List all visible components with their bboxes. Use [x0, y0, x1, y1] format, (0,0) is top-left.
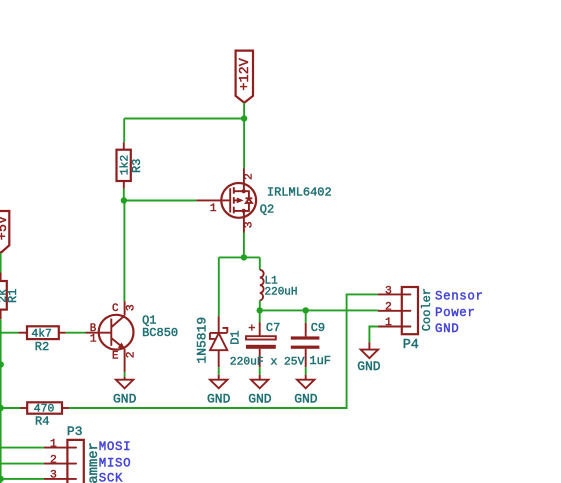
body circle of Q1	[99, 315, 134, 350]
body of R2	[27, 326, 59, 339]
body of R1	[0, 281, 7, 310]
svg-text:R4: R4	[35, 414, 49, 428]
gnd stub	[305, 375, 307, 380]
body circle of Q2	[221, 183, 256, 218]
gnd stub	[218, 375, 220, 380]
svg-text:P3: P3	[67, 424, 83, 439]
body of P3	[67, 440, 83, 483]
wire Q2 pin3 to junction	[243, 233, 245, 258]
body of R3	[117, 150, 131, 181]
negative pin of C7	[259, 349, 261, 367]
wire to D1	[218, 257, 220, 316]
wire R2 to Q1 base	[66, 332, 86, 334]
wire R3 to junction	[123, 189, 125, 201]
svg-text:1: 1	[90, 333, 97, 345]
wire left rail	[0, 319, 2, 483]
resistor R3	[117, 142, 145, 189]
svg-text:MOSI: MOSI	[99, 440, 131, 454]
pin 2 of R2	[59, 332, 66, 334]
svg-text:2: 2	[243, 173, 255, 180]
wire C9 to gnd	[305, 367, 307, 375]
anode triangle of D1	[210, 333, 227, 350]
gnd triangle	[251, 380, 268, 389]
wire Q1 emitter to gnd	[124, 372, 126, 377]
internal drain lead of Q2	[243, 183, 245, 191]
svg-text:C7: C7	[266, 321, 280, 335]
source contact of Q2	[234, 210, 244, 212]
pin 1 of R3	[123, 142, 125, 149]
power flag +12V	[236, 51, 253, 103]
node junction rail SCK	[0, 476, 4, 482]
svg-text:Q2: Q2	[260, 203, 274, 217]
svg-text:C: C	[112, 303, 119, 315]
base pin of Q1	[86, 332, 112, 334]
plate 2 of C9	[291, 346, 320, 349]
transistor Q2 IRLML6402	[221, 183, 256, 218]
svg-text:2: 2	[50, 455, 57, 467]
resistor R2	[18, 326, 65, 354]
svg-text:1uF: 1uF	[309, 354, 331, 368]
svg-text:Cooler: Cooler	[420, 288, 434, 331]
svg-text:SCK: SCK	[99, 471, 123, 483]
wire junction to Q2 gate	[124, 200, 196, 202]
resistor R1	[0, 273, 20, 320]
svg-text:GND: GND	[113, 391, 137, 406]
wire junction to C9	[305, 310, 307, 322]
wire junction to C7	[259, 310, 261, 322]
svg-text:R1: R1	[6, 289, 20, 303]
power flag +5V	[0, 211, 11, 253]
wire Q1 collector vertical	[123, 201, 125, 302]
pin contacts of P3	[68, 447, 76, 449]
gnd stub	[259, 375, 261, 380]
positive plate of C7	[246, 336, 276, 339]
wire SCK	[1, 478, 44, 480]
resistor R4	[20, 402, 69, 428]
coil of L1	[260, 270, 264, 301]
gnd stub	[124, 377, 126, 380]
pin 1 of C9	[305, 323, 307, 337]
node junction C9	[303, 307, 309, 313]
svg-text:2: 2	[126, 351, 138, 358]
svg-text:R3: R3	[130, 159, 144, 173]
svg-text:3: 3	[50, 469, 57, 481]
svg-text:MISO: MISO	[99, 457, 131, 471]
svg-text:GND: GND	[357, 359, 381, 374]
diode D1 1N5819	[194, 316, 242, 367]
collector stroke of Q1	[112, 316, 125, 327]
svg-text:2: 2	[385, 302, 392, 314]
pin 1 of R1	[0, 273, 2, 282]
svg-text:D1: D1	[229, 330, 243, 344]
transistor Q1 BC850	[86, 301, 134, 372]
wire R2 base drive	[0, 332, 18, 334]
wire output horizontal	[260, 309, 378, 311]
svg-text:E: E	[112, 350, 118, 362]
wire down to R3	[123, 119, 125, 143]
gnd triangle	[116, 380, 133, 389]
emitter stroke of Q1	[112, 338, 125, 349]
svg-text:GND: GND	[248, 391, 272, 406]
svg-text:4k7: 4k7	[31, 328, 52, 340]
svg-text:GND: GND	[294, 391, 318, 406]
node junction L1/C7	[257, 307, 263, 313]
svg-text:C9: C9	[311, 321, 325, 335]
schottky cathode bar of D1	[210, 332, 227, 334]
ground Q1	[113, 377, 137, 406]
cathode pin of D1	[218, 316, 220, 333]
gnd triangle	[361, 350, 378, 359]
wire C7 to gnd	[259, 367, 261, 375]
drain contact of Q2	[234, 190, 244, 192]
wire L1 to junction	[259, 301, 261, 311]
pin 1 of R2	[18, 332, 27, 334]
connector P3 Programmer	[44, 424, 102, 483]
wire P4 pin1 to gnd	[369, 327, 377, 343]
body diode of Q2	[244, 191, 249, 197]
svg-text:220uF x 25V: 220uF x 25V	[230, 357, 305, 369]
pin 1 lead of P4	[378, 326, 402, 328]
svg-text:1: 1	[50, 438, 57, 450]
wire to L1	[259, 257, 261, 269]
connector P4 Cooler	[378, 285, 434, 353]
pin 2 lead of P4	[378, 310, 402, 312]
svg-text:3: 3	[385, 285, 392, 297]
pin 3 lead of P3	[44, 478, 68, 480]
wire junction horizontal	[219, 256, 260, 258]
wire R4 to P4 pin3	[69, 294, 378, 408]
svg-text:GND: GND	[435, 322, 459, 336]
svg-text:GND: GND	[207, 391, 231, 406]
svg-text:R2: R2	[35, 340, 49, 354]
capacitor C9	[291, 310, 325, 367]
bulk arrow of Q2	[234, 199, 237, 201]
pin 1 of R4	[20, 407, 27, 409]
svg-text:+12V: +12V	[238, 57, 253, 90]
inductor L1	[260, 270, 298, 301]
capacitor C7	[246, 310, 280, 367]
collector pin of Q1	[124, 301, 126, 316]
node junction switch	[241, 254, 247, 260]
ground C7	[248, 375, 272, 407]
ground C9	[294, 375, 318, 407]
wire +12V rail to Q2 pin2	[243, 119, 245, 169]
pin 2 of R1	[0, 310, 2, 320]
pin 2 of R4	[62, 407, 69, 409]
pin 2 of R3	[123, 181, 125, 189]
svg-text:IRLML6402: IRLML6402	[267, 186, 332, 200]
wire rail to R4	[1, 407, 20, 409]
transistor Q2 pin 1	[196, 199, 221, 201]
node junction top	[241, 115, 247, 121]
anode pin of D1	[218, 350, 220, 367]
pin contacts of P4	[403, 293, 411, 295]
flag outline	[236, 51, 253, 103]
ground D1	[207, 375, 231, 407]
body of R4	[27, 402, 62, 413]
svg-text:+5V: +5V	[0, 215, 11, 240]
emitter arrow of Q1	[118, 343, 126, 350]
svg-text:P4: P4	[403, 338, 419, 353]
node junction rail R4	[0, 405, 4, 411]
svg-text:Power: Power	[435, 306, 476, 320]
emitter pin of Q1	[124, 349, 126, 372]
flag outline	[0, 211, 9, 253]
wire top horizontal	[124, 118, 244, 120]
transistor Q2 pin 3	[243, 218, 245, 233]
svg-text:3: 3	[243, 221, 255, 228]
wire MOSI	[0, 447, 44, 449]
node junction R3/Q1/Q2 gate	[121, 197, 127, 203]
svg-text:1: 1	[210, 203, 217, 215]
gnd stub	[368, 342, 370, 349]
ground P4	[357, 342, 381, 374]
gnd triangle	[297, 380, 314, 389]
gnd triangle	[210, 380, 227, 389]
svg-text:L1: L1	[265, 275, 279, 287]
svg-text:Sensor: Sensor	[435, 289, 484, 303]
wire MISO	[0, 463, 44, 465]
wire +12V to junction	[243, 103, 245, 119]
transistor Q2 pin 2	[243, 169, 245, 184]
negative plate of C7	[246, 345, 276, 349]
pin 3 lead of P4	[378, 293, 402, 295]
positive pin of C7	[259, 322, 261, 336]
channel segments of Q2	[233, 187, 235, 194]
wire D1 to gnd	[218, 367, 220, 375]
svg-text:+: +	[248, 321, 255, 335]
gate lead of Q2	[223, 199, 231, 201]
gate bar of Q2	[229, 188, 231, 212]
pin 2 of C9	[305, 349, 307, 367]
svg-text:1: 1	[385, 317, 392, 329]
svg-text:3: 3	[126, 304, 138, 311]
wire +5V to R1	[0, 253, 2, 273]
pin 2 lead of P3	[44, 463, 68, 465]
base bar of Q1	[110, 319, 112, 346]
svg-text:1N5819: 1N5819	[194, 317, 209, 364]
svg-text:220uH: 220uH	[265, 287, 298, 299]
internal source lead of Q2	[243, 211, 245, 218]
pin 1 lead of P3	[44, 447, 68, 449]
body of P4	[402, 287, 418, 334]
svg-text:BC850: BC850	[142, 326, 178, 340]
node junction rail offpage	[0, 361, 4, 367]
plate 1 of C9	[291, 336, 320, 339]
